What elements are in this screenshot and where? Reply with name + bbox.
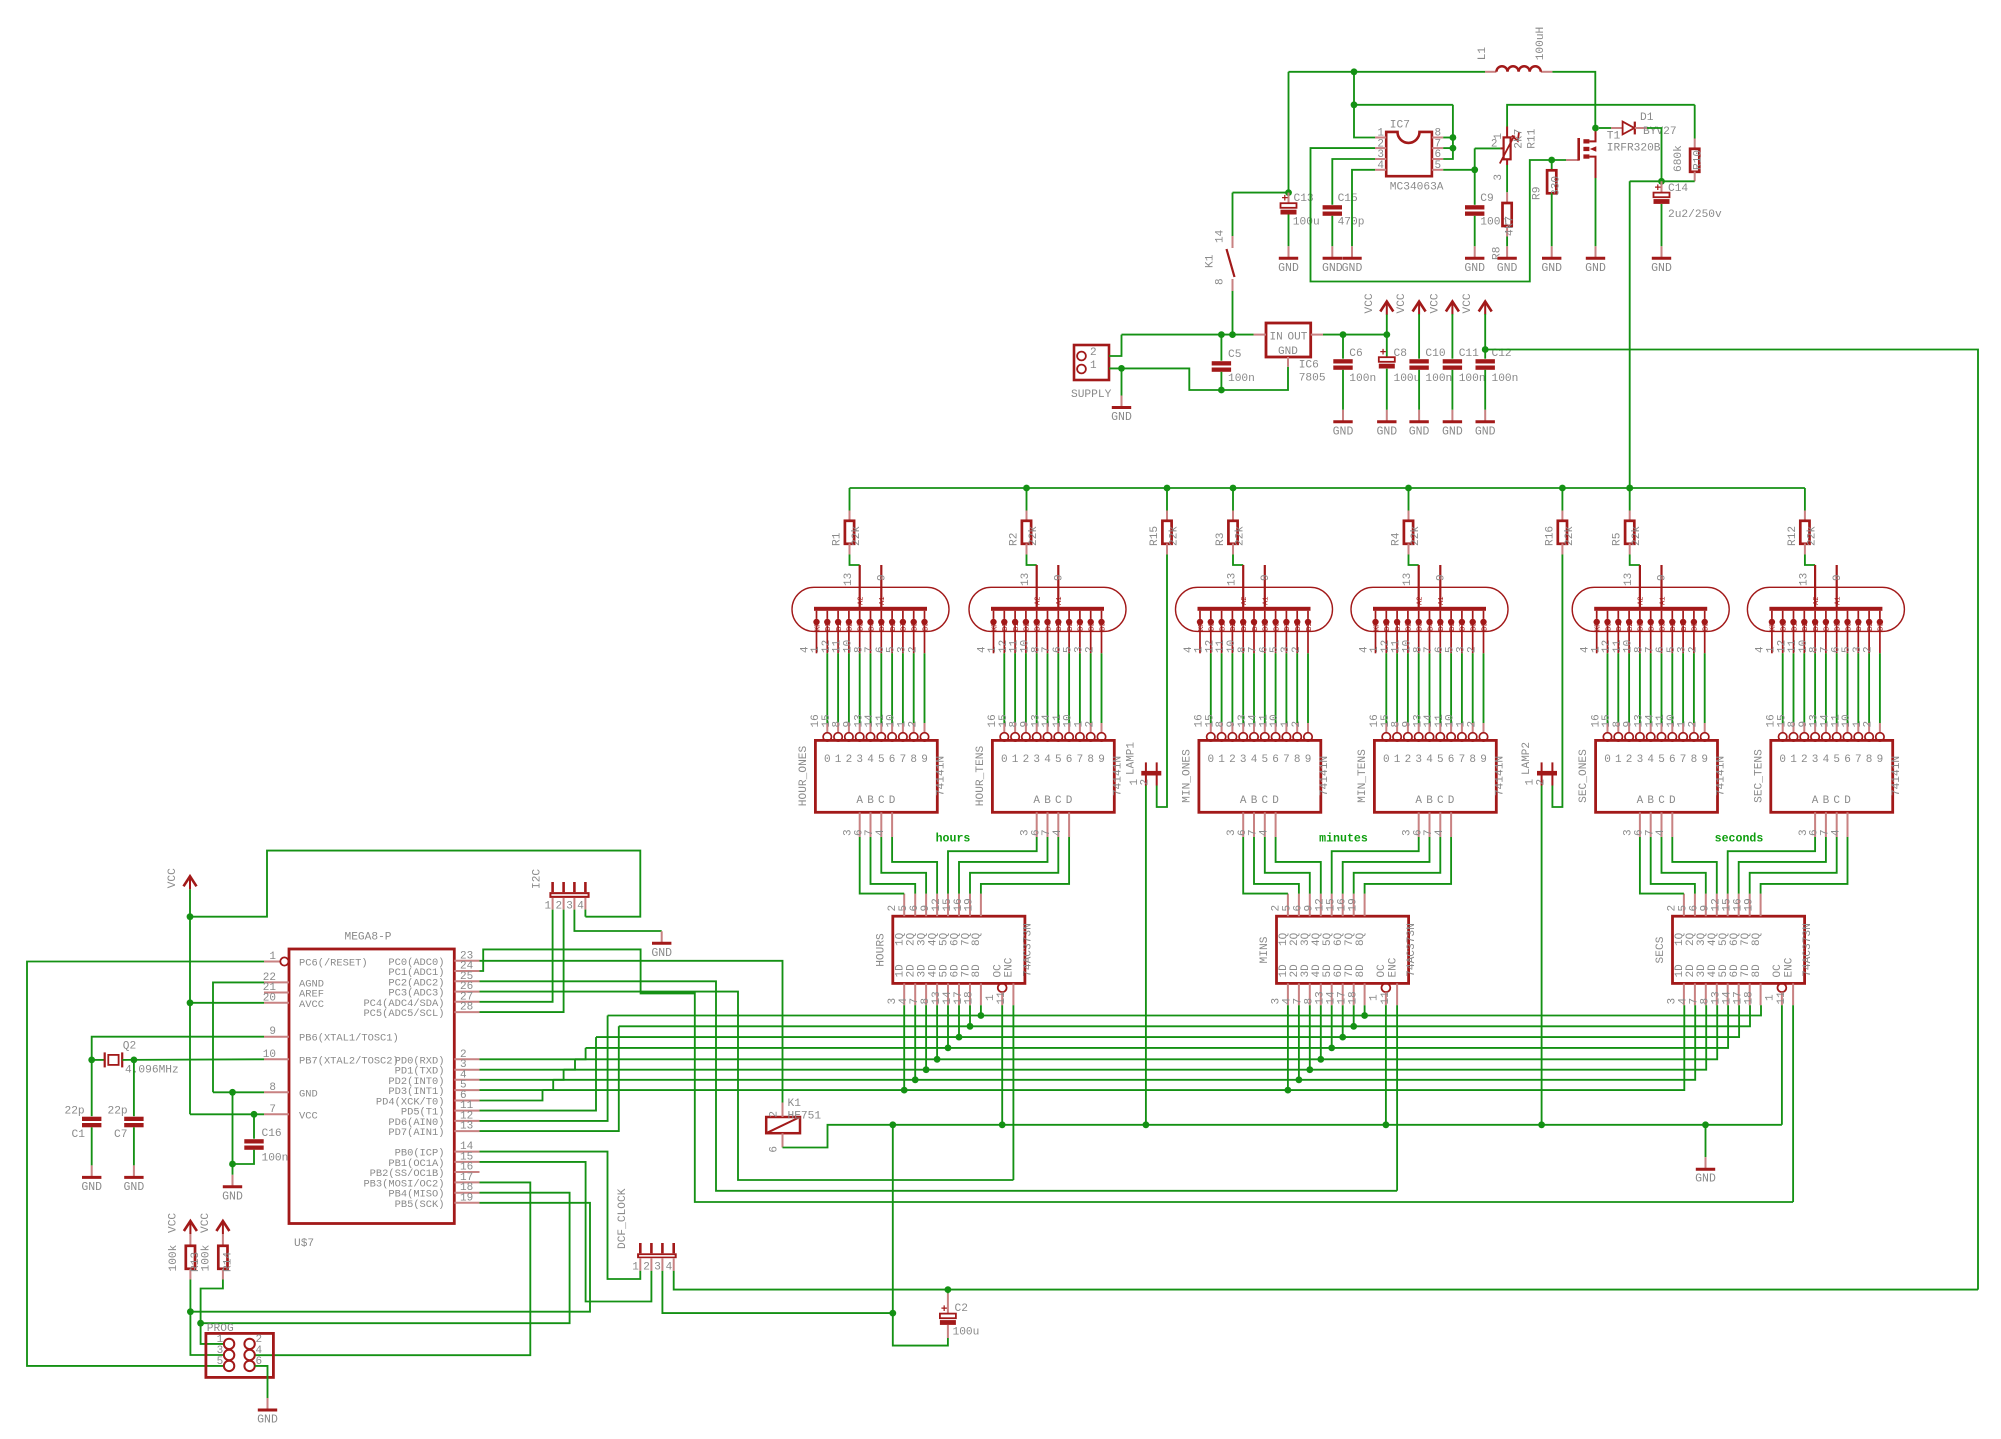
wire HOURS pin drop xyxy=(969,1005,971,1026)
HOURS bottom pin 18 xyxy=(980,983,982,1005)
svg-text:B1: B1 xyxy=(1395,623,1403,631)
svg-text:GND: GND xyxy=(299,1088,318,1100)
wire C8 to GND xyxy=(1386,369,1388,410)
tube SEC_TENS cathode pin 4 xyxy=(1771,611,1773,619)
tube SEC_ONES anode pin 9 xyxy=(1660,565,1662,607)
wire HOURS pin drop xyxy=(925,1005,927,1069)
IC MIN_TENS 74141N body xyxy=(1374,740,1496,812)
tube MIN_TENS anode pin 13 xyxy=(1418,565,1420,607)
HOURS top pin 19 xyxy=(980,894,982,917)
svg-text:B6: B6 xyxy=(890,623,898,631)
svg-text:D: D xyxy=(1844,795,1851,807)
wire boost input to L1 xyxy=(1289,71,1486,73)
svg-text:74141N: 74141N xyxy=(1495,756,1507,796)
ground below R9 xyxy=(1551,246,1553,257)
svg-text:1: 1 xyxy=(1218,754,1225,766)
junction VCC feed to right edge xyxy=(1482,346,1489,353)
svg-text:7805: 7805 xyxy=(1299,373,1326,385)
tube MIN_ONES anode pin 9 xyxy=(1264,565,1266,607)
wire tube pin to driver xyxy=(1253,653,1255,723)
D1 cathode bar xyxy=(1634,122,1636,135)
svg-text:U$7: U$7 xyxy=(294,1238,314,1250)
svg-text:B0: B0 xyxy=(1605,623,1613,631)
wire R2 to anode pin 13 xyxy=(1027,555,1037,566)
wire pins876 net horizontal xyxy=(1354,104,1453,106)
driver output circle xyxy=(920,733,928,741)
wire tube pin to driver xyxy=(1628,653,1630,723)
ground below C8 xyxy=(1386,410,1388,422)
svg-text:B9: B9 xyxy=(922,623,930,631)
wire tube pin to driver xyxy=(880,653,882,723)
svg-text:KP: KP xyxy=(1595,623,1603,631)
svg-text:VCC: VCC xyxy=(1462,293,1474,313)
svg-text:9: 9 xyxy=(1877,754,1884,766)
svg-text:A2: A2 xyxy=(1813,597,1821,605)
svg-text:R2: R2 xyxy=(1009,533,1021,546)
wire tube pin to driver xyxy=(1221,653,1223,723)
wire tube pin to driver xyxy=(1275,653,1277,723)
svg-text:100n: 100n xyxy=(1228,373,1255,385)
wire to R11 pin2 xyxy=(1475,147,1501,149)
SECS top pin 2 xyxy=(1683,894,1685,917)
VCC symbol above C12 xyxy=(1479,302,1492,312)
svg-text:GND: GND xyxy=(222,1190,243,1203)
wire tube pin to driver xyxy=(1483,653,1485,723)
tube HOUR_TENS cathode pin 4 xyxy=(993,611,995,619)
IC6 IN pin xyxy=(1254,334,1267,336)
wire D1 cathode down xyxy=(1647,128,1662,181)
svg-text:74141N: 74141N xyxy=(1891,756,1903,796)
wire bus to R2 xyxy=(1026,488,1028,511)
junction gnd drop xyxy=(229,1089,236,1096)
svg-text:0: 0 xyxy=(1001,754,1008,766)
svg-text:B1: B1 xyxy=(1013,623,1021,631)
svg-text:9: 9 xyxy=(877,574,889,581)
driver output circle xyxy=(1647,733,1655,741)
svg-text:9: 9 xyxy=(1832,574,1844,581)
tube HOUR_ONES anode pin 13 xyxy=(859,565,861,607)
svg-text:VCC: VCC xyxy=(167,868,179,888)
svg-text:B4: B4 xyxy=(1649,623,1657,631)
driver output circle xyxy=(1000,733,1008,741)
junction LAMP2 on lamp net xyxy=(1538,1121,1545,1128)
svg-text:C8: C8 xyxy=(1394,348,1407,360)
driver output circle xyxy=(1865,733,1873,741)
svg-text:PB7(XTAL2/TOSC2): PB7(XTAL2/TOSC2) xyxy=(299,1055,399,1067)
svg-text:A: A xyxy=(1415,795,1422,807)
MCU pin 23 PC0(ADC0) xyxy=(454,960,479,962)
svg-text:4: 4 xyxy=(1823,754,1830,766)
tube MIN_ONES cathode pin 2 xyxy=(1307,611,1309,619)
capacitor xyxy=(1465,205,1484,209)
wire L1 to D1/T1 node xyxy=(1552,72,1595,128)
PROG pin 6 xyxy=(244,1361,254,1371)
wire down to C13 xyxy=(1288,72,1290,193)
tube SEC_ONES cathode pin 3 xyxy=(1693,611,1695,619)
driver output circle xyxy=(1479,733,1487,741)
svg-text:6: 6 xyxy=(1669,754,1676,766)
HOURS top pin 15 xyxy=(958,894,960,917)
svg-text:8D: 8D xyxy=(971,964,983,978)
svg-text:B3: B3 xyxy=(1638,623,1646,631)
HOURS bottom pin 13 xyxy=(947,983,949,1005)
svg-text:1: 1 xyxy=(1369,994,1381,1001)
junction HOURS data 2 xyxy=(912,1076,919,1083)
junction AVCC tap xyxy=(187,999,194,1006)
junction R15 on bus xyxy=(1164,485,1171,492)
svg-text:B7: B7 xyxy=(1856,623,1864,631)
wire tube pin to driver xyxy=(1418,653,1420,723)
MIN_ONES pin 7 xyxy=(1264,812,1266,837)
MCU pin 3 PD1(TXD) xyxy=(454,1069,479,1071)
wire to crystal left xyxy=(92,1059,105,1061)
svg-text:R1: R1 xyxy=(832,532,844,546)
SECS bottom pin 17 xyxy=(1749,983,1751,1005)
SECS bottom pin 4 xyxy=(1694,983,1696,1005)
wire lamp net down xyxy=(892,1125,894,1313)
svg-text:C15: C15 xyxy=(1338,193,1358,205)
svg-text:A1: A1 xyxy=(1438,597,1446,605)
wire SUPPLY pin2 to rail xyxy=(1109,335,1122,356)
wire I2C pin1 SDA to PC4 xyxy=(480,910,553,1002)
svg-text:A1: A1 xyxy=(1263,597,1271,605)
wire to C2 xyxy=(947,1290,949,1294)
VCC symbol near MCU xyxy=(184,876,197,886)
svg-text:B6: B6 xyxy=(1067,623,1075,631)
wire to switch pin 14 xyxy=(1232,193,1234,236)
wire tube pin to driver xyxy=(1285,653,1287,723)
wire I2C pin3 to GND xyxy=(574,910,661,931)
svg-text:SECS: SECS xyxy=(1655,936,1667,963)
MIN_TENS pin 3 xyxy=(1418,812,1420,837)
svg-text:9: 9 xyxy=(1701,754,1708,766)
wire SECS fan ones 1 xyxy=(1651,837,1695,894)
svg-text:1: 1 xyxy=(1394,754,1401,766)
wire tube pin to driver xyxy=(1825,653,1827,723)
wire bus to R1 xyxy=(849,488,851,511)
HOURS bottom pin 3 xyxy=(903,983,905,1005)
driver output circle xyxy=(1469,733,1477,741)
MCU pin 16 PB2(SS/OC1B) xyxy=(454,1171,479,1173)
svg-text:74141N: 74141N xyxy=(1319,756,1331,796)
resistor R16 body xyxy=(1558,521,1567,544)
wire R14 down xyxy=(201,1280,223,1324)
wire bus to R12 xyxy=(1804,488,1806,511)
svg-text:T1: T1 xyxy=(1607,131,1621,143)
svg-text:KP: KP xyxy=(1198,623,1206,631)
HOURS top pin 2 xyxy=(903,894,905,917)
HOURS OC inversion circle xyxy=(998,983,1007,992)
svg-text:D1: D1 xyxy=(1640,112,1654,124)
svg-text:LAMP1: LAMP1 xyxy=(1126,742,1138,775)
wire C13 to switch K1 xyxy=(1233,192,1289,194)
svg-text:B0: B0 xyxy=(1384,623,1392,631)
svg-text:2: 2 xyxy=(1863,646,1875,653)
SECS top pin 15 xyxy=(1738,894,1740,917)
tube SEC_ONES cathode pin 6 xyxy=(1671,611,1673,619)
svg-text:B5: B5 xyxy=(1438,623,1446,631)
svg-text:6: 6 xyxy=(1066,754,1073,766)
PROG pin 3 xyxy=(224,1350,234,1360)
svg-text:2: 2 xyxy=(1084,646,1096,653)
wire SUPPLY pin1 / GND rail xyxy=(1109,367,1288,390)
junction MINS data 7 xyxy=(1350,1023,1357,1030)
T1 gate bar xyxy=(1577,138,1580,161)
wire data bus line 1 xyxy=(608,1005,1761,1015)
resistor R3 body xyxy=(1228,521,1237,544)
svg-text:B5: B5 xyxy=(1659,623,1667,631)
svg-text:18: 18 xyxy=(1347,991,1359,1004)
driver output circle xyxy=(1065,733,1073,741)
driver output circle xyxy=(877,733,885,741)
ground below C6 xyxy=(1342,410,1344,422)
svg-text:1: 1 xyxy=(1012,754,1019,766)
svg-text:A: A xyxy=(1240,795,1247,807)
wire SECS fan ones 2 xyxy=(1662,837,1706,894)
wire tube pin to driver xyxy=(1650,653,1652,723)
svg-text:C2: C2 xyxy=(955,1303,968,1315)
MCU pin 21 AREF xyxy=(264,992,289,994)
wire data bus line 8 xyxy=(543,1005,1685,1090)
ground IC7 pin4 xyxy=(1351,246,1353,257)
tube HOUR_ONES cathode pin 12 xyxy=(837,611,839,619)
junction supply gnd xyxy=(1118,365,1125,372)
tube MIN_ONES cathode pin 11 xyxy=(1231,611,1233,619)
tube MIN_ONES cathode pin 1 xyxy=(1210,611,1212,619)
MCU pin 24 PC1(ADC1) xyxy=(454,970,479,972)
wire to PROG pin3 xyxy=(190,1312,224,1355)
svg-text:B1: B1 xyxy=(836,623,844,631)
svg-text:PC6(/RESET): PC6(/RESET) xyxy=(299,958,368,970)
driver output circle xyxy=(1207,733,1215,741)
resistor R4 body xyxy=(1404,521,1413,544)
svg-text:3: 3 xyxy=(566,901,573,913)
svg-text:KP: KP xyxy=(1770,623,1778,631)
wire tube pin to driver xyxy=(1231,653,1233,723)
HOURS top pin 16 xyxy=(969,894,971,917)
wire MINS pin drop xyxy=(1298,1005,1300,1080)
svg-text:GND: GND xyxy=(1322,262,1343,275)
wire tube pin to driver xyxy=(924,653,926,723)
wire tube pin to driver xyxy=(1461,653,1463,723)
svg-text:74AC373N: 74AC373N xyxy=(1802,923,1814,977)
svg-text:HOURS: HOURS xyxy=(875,933,887,967)
tube HOUR_TENS cathode pin 10 xyxy=(1036,611,1038,619)
junction R4 on bus xyxy=(1405,485,1412,492)
wire tube pin to driver xyxy=(848,653,850,723)
wire PC1 to SECS ENC line xyxy=(480,949,1794,1202)
svg-text:A2: A2 xyxy=(1241,597,1249,605)
wire VCC to C10 xyxy=(1418,314,1420,359)
svg-text:C: C xyxy=(1833,795,1840,807)
wire bus to R5 xyxy=(1629,488,1631,511)
R11 pin2 stub xyxy=(1500,147,1503,149)
wire data bus line 3 xyxy=(596,1005,1739,1037)
svg-text:B0: B0 xyxy=(1002,623,1010,631)
svg-text:8: 8 xyxy=(1215,278,1227,285)
wire R16 to LAMP2 pin2 xyxy=(1552,555,1562,808)
IC7 right pin 5 xyxy=(1432,169,1443,171)
driver output circle xyxy=(823,733,831,741)
driver output circle xyxy=(1625,733,1633,741)
wire MINS ENC drop xyxy=(1396,1005,1398,1191)
DCF pin 2 xyxy=(650,1243,653,1253)
svg-text:2: 2 xyxy=(1466,721,1478,728)
wire IC7 pin3 to C15 xyxy=(1332,159,1375,205)
wire HOURS fan tens 0 xyxy=(948,837,1037,894)
resistor R1 body xyxy=(845,521,854,544)
tube MIN_TENS cathode pin 7 xyxy=(1439,611,1441,619)
wire MINS pin drop xyxy=(1287,1005,1289,1090)
wire MINS pin drop xyxy=(1342,1005,1344,1037)
driver output circle xyxy=(1415,733,1423,741)
tube MIN_ONES cathode pin 10 xyxy=(1242,611,1244,619)
svg-text:13: 13 xyxy=(1226,573,1238,586)
SECS bottom pin 8 xyxy=(1716,983,1718,1005)
svg-text:B7: B7 xyxy=(1681,623,1689,631)
wire MINS fan ones 2 xyxy=(1265,837,1310,894)
ground below T1 xyxy=(1595,246,1597,257)
svg-text:GND: GND xyxy=(124,1181,145,1194)
wire tube pin to driver xyxy=(859,653,861,723)
I2C pin 3 xyxy=(573,882,576,892)
wire IN rail xyxy=(1122,334,1254,336)
tube SEC_TENS cathode pin 7 xyxy=(1836,611,1838,619)
svg-text:B6: B6 xyxy=(1670,623,1678,631)
T1 channel bottom xyxy=(1583,154,1589,158)
MCU pin 25 PC2(ADC2) xyxy=(454,980,479,982)
svg-text:L1: L1 xyxy=(1477,47,1489,61)
tube SEC_ONES cathode pin 1 xyxy=(1607,611,1609,619)
svg-text:SEC_ONES: SEC_ONES xyxy=(1578,749,1590,803)
wire MINS pin drop xyxy=(1309,1005,1311,1069)
svg-text:4: 4 xyxy=(1655,829,1667,836)
LAMP2 pin 1 lead xyxy=(1541,762,1543,785)
svg-text:19: 19 xyxy=(964,898,976,911)
svg-text:minutes: minutes xyxy=(1319,833,1368,846)
MCU pin 17 PB3(MOSI/OC2) xyxy=(454,1181,479,1183)
svg-text:0: 0 xyxy=(824,754,831,766)
svg-text:4: 4 xyxy=(1377,160,1384,172)
svg-text:GND: GND xyxy=(81,1181,102,1194)
svg-text:2: 2 xyxy=(1491,139,1498,151)
wire R1 to anode pin 13 xyxy=(850,555,860,566)
svg-text:7: 7 xyxy=(1855,754,1862,766)
svg-text:8D: 8D xyxy=(1751,964,1763,978)
svg-text:B: B xyxy=(1426,795,1433,807)
ground below C12 xyxy=(1484,410,1486,422)
tube SEC_ONES envelope xyxy=(1572,587,1729,631)
MINS ENC pin 11 xyxy=(1396,983,1398,1005)
wire VCC long run right edge xyxy=(1485,350,1978,1290)
wire PD4 to bus8 xyxy=(480,1090,543,1100)
MINS bottom pin 17 xyxy=(1353,983,1355,1005)
tube SEC_TENS cathode pin 10 xyxy=(1814,611,1816,619)
HOUR_ONES pin 6 xyxy=(870,812,872,837)
MINS top pin 9 xyxy=(1320,894,1322,917)
wire R12 to anode pin 13 xyxy=(1805,555,1815,566)
svg-text:IRFR320B: IRFR320B xyxy=(1607,143,1661,155)
wire tube pin to driver xyxy=(1661,653,1663,723)
wire PROG pin6 to GND xyxy=(255,1366,268,1398)
wire tube pin to driver xyxy=(837,653,839,723)
MCU pin 20 AVCC xyxy=(264,1002,289,1004)
svg-text:3: 3 xyxy=(1637,754,1644,766)
IC HOUR_ONES 74141N body xyxy=(815,740,937,812)
wire R13 down xyxy=(189,1280,191,1312)
junction C1/crystal xyxy=(88,1057,95,1064)
wire gate node to R9 xyxy=(1551,160,1553,170)
svg-text:1: 1 xyxy=(269,951,276,963)
wire PC2 to MINS ENC line xyxy=(480,981,1398,1191)
wire C7 to GND xyxy=(133,1127,135,1165)
K1 pin 6 xyxy=(782,1133,784,1147)
capacitor C8 plates xyxy=(1379,357,1395,362)
driver output circle xyxy=(1436,733,1444,741)
svg-text:8: 8 xyxy=(269,1082,276,1094)
MINS top pin 15 xyxy=(1342,894,1344,917)
junction C16 tap xyxy=(251,1111,258,1118)
svg-text:8: 8 xyxy=(1691,754,1698,766)
ground below R8 xyxy=(1506,246,1508,257)
tube MIN_ONES anode pin 13 xyxy=(1242,565,1244,607)
SECS bottom pin 7 xyxy=(1705,983,1707,1005)
svg-text:R10: R10 xyxy=(1693,150,1705,170)
wire LAMP2 pin1 down to lamp net xyxy=(1541,786,1543,1125)
wire I2C pin4 stub xyxy=(584,910,586,917)
wire C2 negative return xyxy=(893,1313,948,1346)
wire tube pin to driver xyxy=(1682,653,1684,723)
transistor T1 IRFR320B (MOSFET) xyxy=(1566,159,1579,161)
Q2 left plate xyxy=(104,1052,106,1067)
driver output circle xyxy=(1800,733,1808,741)
svg-text:B2: B2 xyxy=(847,623,855,631)
junction R2 on bus xyxy=(1023,485,1030,492)
MCU pin 14 PB0(ICP) xyxy=(454,1151,479,1153)
wire tube pin to driver xyxy=(1879,653,1881,723)
ground below C14 xyxy=(1661,246,1663,257)
svg-text:5: 5 xyxy=(217,1356,224,1368)
svg-text:22k: 22k xyxy=(1631,526,1643,546)
svg-text:22k: 22k xyxy=(1028,526,1040,546)
svg-text:11: 11 xyxy=(1776,991,1788,1005)
wire tube pin to driver xyxy=(1296,653,1298,723)
tube SEC_ONES cathode pin 7 xyxy=(1661,611,1663,619)
svg-text:8: 8 xyxy=(1866,754,1873,766)
svg-text:C10: C10 xyxy=(1425,348,1445,360)
wire VCC arrow to C8 xyxy=(1386,314,1388,357)
svg-text:100n: 100n xyxy=(1492,373,1519,385)
R11 arrow head xyxy=(1512,132,1519,141)
capacitor xyxy=(124,1117,143,1121)
HOURS top pin 9 xyxy=(936,894,938,917)
ground below PROG xyxy=(267,1398,269,1410)
HOURS ENC pin 11 xyxy=(1012,983,1014,1005)
wire C5 to gnd rail xyxy=(1220,372,1222,390)
svg-text:B9: B9 xyxy=(1481,623,1489,631)
I2C pin 4 xyxy=(584,882,587,892)
tube HOUR_ONES envelope xyxy=(792,587,949,631)
svg-text:5: 5 xyxy=(1658,754,1665,766)
driver output circle xyxy=(1876,733,1884,741)
svg-text:100u: 100u xyxy=(953,1327,980,1339)
tube MIN_TENS cathode pin 6 xyxy=(1450,611,1452,619)
driver output circle xyxy=(1250,733,1258,741)
svg-text:9: 9 xyxy=(1260,574,1272,581)
tube HOUR_ONES cathode pin 3 xyxy=(913,611,915,619)
svg-text:R12: R12 xyxy=(1787,526,1799,546)
K1 diagonal xyxy=(766,1117,800,1133)
